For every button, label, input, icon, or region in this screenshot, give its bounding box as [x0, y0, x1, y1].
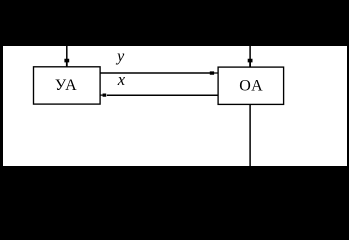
- wire: OA output down: [249, 104, 251, 166]
- block UA: [34, 67, 101, 104]
- svg-text:ОА: ОА: [239, 77, 264, 94]
- white panel: [3, 46, 347, 166]
- wire: data input into OA: [249, 46, 251, 60]
- svg-text:УА: УА: [55, 77, 79, 94]
- svg-text:x: x: [117, 70, 126, 89]
- wire y: UA to OA: [100, 72, 211, 74]
- wire x: OA to UA: [107, 94, 218, 96]
- svg-text:y: y: [115, 48, 125, 65]
- wire: control input into UA: [66, 46, 68, 60]
- arrowhead into UA top: [64, 59, 69, 67]
- block OA: [218, 67, 284, 104]
- arrowhead into UA right: [100, 94, 106, 97]
- arrowhead into OA left: [210, 71, 218, 74]
- arrowhead into OA top: [248, 59, 253, 67]
